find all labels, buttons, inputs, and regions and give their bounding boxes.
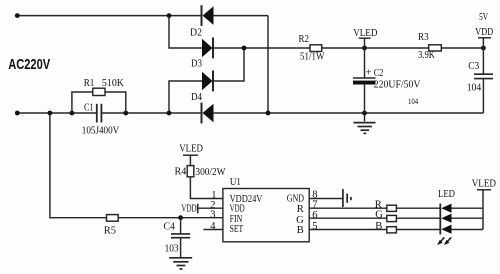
resistor R box [387,205,397,211]
svg-text:C2: C2 [374,68,384,79]
svg-text:R5: R5 [104,226,116,237]
wire bridge right vertical [267,16,269,113]
svg-text:220UF/50V: 220UF/50V [374,80,421,91]
capacitor C2 [353,48,376,113]
node C4 junction [178,215,183,220]
wire node A down to D2 anode [169,16,202,48]
LED red [441,204,451,213]
LED cathode bar [439,204,441,235]
svg-text:D3: D3 [191,58,202,69]
node ground junction [362,111,367,116]
svg-text:B: B [297,225,304,236]
wire GND pin8 [309,198,343,200]
svg-text:C4: C4 [164,222,176,233]
svg-text:VDD: VDD [181,204,196,215]
capacitor C4 [171,218,190,257]
power flag VLED right [477,190,491,230]
diode D3 [202,71,213,92]
svg-text:105J400V: 105J400V [82,126,120,137]
svg-text:104: 104 [408,96,419,106]
LED green [441,214,451,223]
LED blue [441,225,451,234]
wire R3 to VDD node [441,47,483,49]
svg-text:4: 4 [210,221,216,232]
svg-text:510K: 510K [102,78,124,89]
ground pin8 rotated [343,189,351,207]
resistor G box [387,215,397,221]
svg-text:3: 3 [210,210,215,221]
wire branch down to R5 [50,113,107,218]
wire D2 cathode to R2 [214,47,311,49]
ground C4 [169,258,192,269]
diode D1 [202,5,214,26]
node D3-D2 junction [242,46,247,51]
power flag VLED top [359,38,371,48]
node branch to lower circuit [48,111,53,116]
svg-text:R4: R4 [175,166,188,177]
svg-text:C1: C1 [84,103,94,114]
svg-text:VLED: VLED [179,143,203,154]
resistor R1 branch [72,88,126,113]
svg-text:5: 5 [312,221,317,232]
svg-text:G: G [375,210,383,221]
svg-text:B: B [375,221,382,232]
wire VDD to pin2 [198,207,223,209]
wire resistor G to LED [396,217,440,219]
wire SET stub pin4 [203,229,223,231]
wire D4 anode to right rail [214,112,484,114]
svg-text:3.9K: 3.9K [418,50,435,61]
wire pin6 to resistor G [309,217,386,219]
node A top junction [167,13,172,18]
capacitor C3 [474,48,493,113]
diode D2 [202,38,213,59]
svg-text:SET: SET [230,224,244,235]
wire D1 anode to bridge right corner [214,15,269,17]
node R1 right stub [123,111,128,116]
resistor R2 [310,45,322,52]
wire R4 to pin1 [190,177,223,199]
svg-text:5V: 5V [479,12,488,23]
svg-text:6: 6 [312,210,317,221]
svg-text:VDD: VDD [230,203,245,214]
node bridge bottom-right [266,111,271,116]
node VLED [362,46,367,51]
node bridge bottom-left [167,111,172,116]
svg-text:103: 103 [165,244,179,255]
svg-text:+: + [366,67,372,78]
node bottom-left terminal [15,111,20,116]
wire pin5 to resistor B [309,229,386,231]
power flag VDD [478,38,491,48]
svg-text:C3: C3 [468,61,479,72]
svg-text:VDD: VDD [475,27,493,38]
wire R2 to R3 [322,47,429,49]
svg-text:104: 104 [467,83,482,94]
resistor R5 [107,215,119,222]
node top-left terminal [15,13,20,18]
svg-text:GND: GND [287,194,305,205]
svg-text:D4: D4 [191,92,203,103]
svg-text:D2: D2 [190,28,202,39]
connector VDD tick pin2 [197,204,199,214]
resistor B box [387,227,397,233]
svg-text:R2: R2 [299,34,310,45]
capacitor C1 [97,104,102,123]
svg-text:300/2W: 300/2W [195,167,225,178]
diode D4 [202,103,214,124]
power flag VLED lower [183,155,198,165]
LED emission arrows [437,237,451,245]
svg-text:R1: R1 [84,78,95,89]
svg-text:R3: R3 [418,32,429,43]
svg-text:U1: U1 [230,177,241,188]
wire resistor B to LED [396,229,440,231]
resistor R3 [429,45,442,51]
svg-text:LED: LED [438,189,455,200]
IC U1 box [223,189,309,242]
node R1 left stub [70,111,75,116]
svg-text:VLED: VLED [472,178,497,189]
svg-text:51/1W: 51/1W [300,52,324,63]
wire R5 to FIN pin3 [118,217,223,219]
wire top AC rail [17,15,201,17]
wire C1 to D4 [102,112,202,114]
wire bottom rail to D3 anode [169,81,202,113]
svg-text:VLED: VLED [353,28,378,39]
wire D3 cathode up to D2 row [214,48,245,81]
wire bottom AC rail left [17,112,96,114]
svg-text:AC220V: AC220V [8,56,50,73]
resistor R4 [187,166,194,177]
node VDD [481,46,486,51]
svg-text:R: R [297,204,304,215]
wire pin7 to resistor R [309,207,386,209]
ground main [354,113,376,133]
wire LED anodes to VLED rail [452,208,484,229]
wire resistor R to LED [396,207,440,209]
